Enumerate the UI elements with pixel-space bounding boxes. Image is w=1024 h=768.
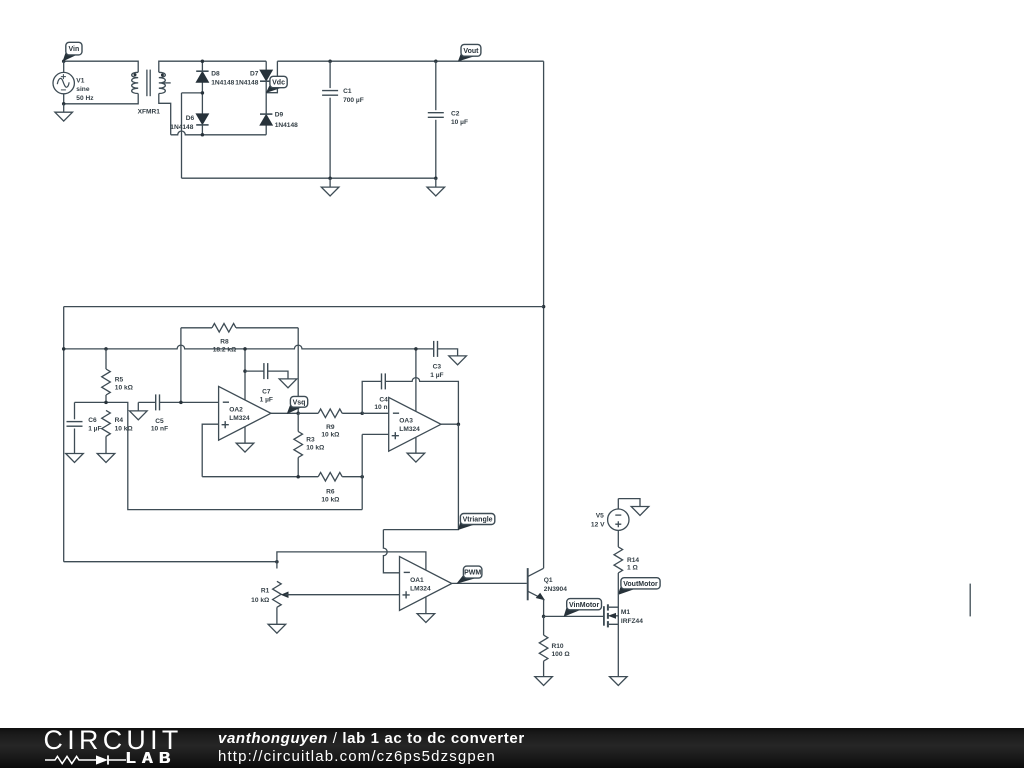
capacitor C3 1uF [430,341,457,379]
svg-text:10 kΩ: 10 kΩ [321,497,340,504]
resistor R9 10 kOhm [298,409,362,439]
resistor R4 10 kOhm [102,410,134,453]
voltage source V5 12 V [591,499,629,531]
svg-text:R3: R3 [306,437,315,444]
svg-text:D8: D8 [211,71,220,78]
junction dot D8-D6 node [201,91,205,95]
svg-text:Vin: Vin [69,46,80,53]
footer bar [0,728,1024,768]
wire secondary bottom jog [159,94,171,135]
svg-text:12 V: 12 V [591,521,605,528]
svg-text:10 kΩ: 10 kΩ [306,444,325,451]
node VoutMotor flag [619,578,661,595]
node Vin flag [63,42,82,60]
resistor R14 1 Ohm [614,530,639,594]
ground right of C3 [449,356,467,365]
wire OA1 output to Q1 base [452,582,527,584]
ground below C1 [321,178,339,196]
wire stray segment [969,584,971,617]
svg-text:10 µF: 10 µF [451,119,468,126]
CircuitLab logo text CIRCUIT [44,727,183,754]
svg-text:D6: D6 [186,115,195,122]
wire OA2+ / R3 / R6 row [202,476,362,478]
potentiometer R1 10 kOhm [251,562,399,625]
node Vout flag [459,44,481,60]
svg-text:C1: C1 [343,88,352,95]
svg-text:Vsq: Vsq [293,399,306,406]
junction dot C2 bottom [434,176,438,180]
svg-text:IRFZ44: IRFZ44 [621,618,643,625]
wire bottom rail to C2 ground [182,177,436,179]
svg-text:R5: R5 [115,377,124,384]
svg-text:10 kΩ: 10 kΩ [115,426,134,433]
capacitor C7 1uF [245,363,288,403]
wire VinMotor to M1 gate [544,615,604,617]
junction dot R4 top [104,401,108,405]
capacitor C1 700uF [322,61,364,178]
wire OA3 plus input [362,433,389,435]
junction dot Vin node [62,59,65,63]
svg-text:100 Ω: 100 Ω [552,651,571,658]
svg-text:R8: R8 [220,339,229,346]
diode D7 1N4148 [235,70,272,86]
wire OA2 V- to ground [244,427,246,444]
ground below OA2 [236,443,254,452]
svg-text:C6: C6 [88,417,97,424]
ground below R4 [97,454,115,463]
svg-text:1N4148: 1N4148 [235,79,258,86]
resistor R3 10 kOhm [294,413,325,476]
svg-text:Q1: Q1 [544,577,553,584]
wire D8-node vertical to bottom rail [181,93,183,178]
wire OA1 V- to ground [425,597,427,614]
svg-text:18.2 kΩ: 18.2 kΩ [213,347,237,354]
wire OA3 V- to ground [415,437,417,453]
wire R4 node row [75,402,363,509]
wire D8 anode link [182,92,203,94]
svg-text:C5: C5 [155,418,164,425]
transistor Q1 2N3904 [528,568,568,616]
junction dot VinMotor node [542,615,546,619]
svg-text:sine: sine [76,86,90,93]
footer title line [218,731,525,746]
junction dot C1 bottom [328,176,332,180]
svg-text:C3: C3 [433,363,442,370]
svg-text:10 kΩ: 10 kΩ [115,384,134,391]
svg-text:R1: R1 [261,588,270,595]
diode D8 1N4148 [196,71,234,87]
svg-text:D9: D9 [275,112,284,119]
junction dot V1 bottom [62,102,65,106]
svg-text:1 µF: 1 µF [260,397,273,404]
capacitor C4 10nF feedback [362,373,458,424]
ground below V1 [55,104,73,121]
node VinMotor flag [564,599,601,616]
mosfet M1 IRFZ44 [604,595,643,677]
svg-text:LM324: LM324 [229,415,250,422]
svg-text:10 kΩ: 10 kΩ [321,432,340,439]
wire V1 bottom to primary bottom [64,94,139,104]
junction dot OA2 V+ rail [243,347,247,351]
wire R1 to OA1 V+ jog [277,552,426,571]
junction dot OA3 output [457,422,461,426]
ground right of V5 [631,507,649,516]
svg-text:M1: M1 [621,609,630,616]
junction dot R3 bottom [296,475,300,479]
svg-text:V1: V1 [76,78,84,85]
svg-text:XFMR1: XFMR1 [138,109,161,116]
svg-text:1N4148: 1N4148 [170,124,193,131]
wire left box vertical [63,307,65,562]
svg-text:1N4148: 1N4148 [211,79,234,86]
wire OA2 V+ pin [244,349,246,400]
svg-text:R6: R6 [326,489,335,496]
svg-text:PWM: PWM [464,570,481,577]
wire Vdc jog to top rail [266,61,277,92]
wire Vtriangle path with hop [383,424,458,573]
svg-text:C2: C2 [451,110,460,117]
svg-text:1 Ω: 1 Ω [627,565,638,572]
node Vsq flag [288,396,308,413]
wire D7 column [265,61,267,135]
junction dot C2 top [434,59,438,63]
footer url line [218,749,496,764]
svg-text:V5: V5 [596,513,604,520]
svg-text:R9: R9 [326,424,335,431]
svg-text:Vdc: Vdc [272,80,285,87]
op-amp OA1 LM324 [400,557,452,611]
junction dot D6 bottom [201,133,205,137]
svg-text:700 µF: 700 µF [343,97,364,104]
node PWM flag [458,566,482,583]
wire OA3 V+ pin [415,349,417,411]
svg-text:10 nF: 10 nF [151,426,168,433]
svg-text:Vtriangle: Vtriangle [463,517,493,524]
voltage source V1 sine 50 Hz [53,72,94,101]
junction dot OA3 V+ rail [414,347,418,351]
wire D8 column [201,61,203,135]
wire Vin to transformer primary top [64,61,139,72]
ground below C7 [279,379,297,388]
wire V1 top stub [63,61,65,72]
transformer XFMR1 [132,70,171,116]
resistor R10 100 Ohm [539,616,570,676]
resistor R5 10 kOhm [102,349,134,403]
junction dot R5 top [104,347,108,351]
wire OA3 minus input [362,412,389,414]
junction dot R9-OA3minus [360,412,364,416]
svg-text:C4: C4 [379,396,388,403]
junction dot C5-R8 node [179,401,183,405]
svg-text:D7: D7 [250,70,259,77]
svg-text:OA1: OA1 [410,577,424,584]
svg-text:C7: C7 [262,389,271,396]
ground below C6 [66,454,84,463]
ground below M1 source [610,677,628,686]
wire OA2 plus input [202,424,218,477]
junction dot C7 tap [243,369,247,373]
svg-text:R10: R10 [552,643,564,650]
ground left of C5 [130,402,148,419]
diode D9 1N4148 [260,112,298,129]
svg-text:OA2: OA2 [229,407,243,414]
svg-text:LM324: LM324 [410,585,431,592]
junction dot mid rail left [62,347,65,351]
node Vdc flag [267,76,287,92]
wire long right vertical Vout to Q1 collector [543,61,545,568]
svg-text:VinMotor: VinMotor [569,602,599,609]
resistor R8 18.2 kOhm feedback [181,324,298,414]
wire OA3 output [441,423,458,425]
svg-text:50 Hz: 50 Hz [76,95,94,102]
svg-text:LM324: LM324 [399,426,420,433]
svg-text:2N3904: 2N3904 [544,586,567,593]
svg-text:VoutMotor: VoutMotor [623,581,658,588]
wire secondary top to D8/D7 rail [159,61,266,72]
svg-text:R14: R14 [627,557,639,564]
resistor R6 10 kOhm [318,472,342,503]
wire bridge bottom with hop [171,131,267,135]
wire OA3 plus column [361,434,363,509]
junction dot R6 right [360,475,364,479]
junction dot D8 top [201,59,205,63]
wire OA2 output to Vsq [271,412,298,414]
svg-text:1 µF: 1 µF [88,426,101,433]
ground below R1 [268,624,286,633]
CircuitLab logo resistor-diode glyph [44,753,134,767]
svg-text:OA3: OA3 [399,418,413,425]
wire upper box rail [64,306,544,308]
diode D6 1N4148 [170,114,208,131]
op-amp OA2 LM324 [219,386,271,440]
wire top rail Vdc to right corner [277,60,543,62]
wire V5 top to ground [618,499,640,507]
svg-text:1N4148: 1N4148 [275,122,298,129]
CircuitLab logo text LAB [126,751,176,767]
svg-text:R4: R4 [115,417,124,424]
junction dot R1 top [275,560,279,564]
junction dot C1 top [328,59,332,63]
capacitor C5 10nF [138,394,218,432]
svg-text:1 µF: 1 µF [430,372,443,379]
ground below R10 [535,677,553,686]
ground below OA1 [417,614,435,623]
ground below OA3 [407,453,425,462]
wire mid rail with hops [64,345,434,349]
wire left rail to R1 top [64,561,277,563]
junction dot Vsq node [296,412,300,416]
capacitor C6 1uF [67,402,102,453]
op-amp OA3 LM324 [389,397,441,451]
junction dot right rail [542,305,546,309]
node Vtriangle flag [459,514,495,530]
svg-text:Vout: Vout [463,48,479,55]
ground below C2 [427,178,445,196]
capacitor C2 10uF [428,61,468,178]
svg-text:10 kΩ: 10 kΩ [251,597,270,604]
